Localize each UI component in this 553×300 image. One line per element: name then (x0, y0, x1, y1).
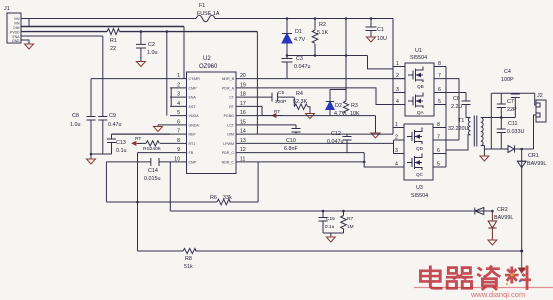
wire J2 pin2 stub (534, 115, 537, 149)
resistor R7 (341, 211, 347, 233)
ground T1 (480, 156, 489, 161)
svg-text:NDR_C: NDR_C (222, 160, 235, 164)
svg-text:0.47u: 0.47u (108, 122, 122, 128)
svg-text:2: 2 (395, 135, 398, 141)
wire PDR_A route (253, 88, 406, 105)
svg-text:QC: QC (416, 172, 424, 177)
svg-text:2: 2 (396, 73, 399, 79)
svg-text:10: 10 (174, 156, 180, 162)
wire NDR_C (253, 161, 365, 163)
wire LPWM (253, 142, 394, 144)
U2 pin stubs right (236, 79, 253, 162)
svg-text:8: 8 (437, 122, 440, 128)
svg-text:R2: R2 (319, 22, 326, 28)
svg-text:RT: RT (274, 109, 280, 115)
wire U2 pin1 to C8 branch (91, 78, 170, 80)
wire T1 primary bottom (446, 135, 471, 150)
capacitor C9 (98, 36, 107, 154)
svg-text:4: 4 (395, 162, 398, 168)
svg-text:0.1u: 0.1u (325, 224, 335, 230)
svg-text:8: 8 (177, 138, 180, 144)
svg-text:6.8nF: 6.8nF (284, 146, 298, 152)
svg-text:QA: QA (417, 110, 425, 115)
arrow tail end (519, 268, 525, 273)
diode CR1 (517, 149, 526, 251)
svg-text:R1: R1 (110, 38, 117, 44)
svg-text:20: 20 (240, 73, 246, 79)
wire R4 to ground (308, 107, 310, 114)
svg-text:ENA: ENA (189, 96, 197, 100)
svg-text:1.0u: 1.0u (147, 50, 158, 56)
svg-text:OZ960: OZ960 (199, 64, 218, 70)
svg-text:17: 17 (240, 101, 246, 107)
watermark char zi (477, 266, 500, 290)
off-page arrow RT right (272, 114, 282, 118)
ground C1 (367, 37, 376, 42)
wire DIM drop x257.4 (256, 32, 258, 135)
svg-text:12: 12 (240, 147, 246, 153)
svg-text:PGND: PGND (224, 114, 235, 118)
svg-text:51k: 51k (184, 264, 193, 270)
svg-text:CT: CT (229, 96, 235, 100)
svg-text:8: 8 (438, 61, 441, 67)
svg-text:C4: C4 (504, 69, 511, 75)
svg-text:LCT: LCT (227, 123, 235, 127)
wire pin17 RT stub (253, 106, 283, 115)
svg-text:C15: C15 (326, 216, 335, 222)
svg-text:VIN: VIN (14, 17, 20, 21)
svg-text:CMP: CMP (189, 86, 198, 90)
U1 pin stubs (393, 67, 446, 105)
svg-text:R7: R7 (347, 216, 353, 222)
svg-text:CT/MR: CT/MR (189, 77, 201, 81)
watermark char dian (420, 266, 442, 289)
svg-text:3: 3 (395, 148, 398, 154)
svg-text:www.dianqi.com: www.dianqi.com (470, 290, 525, 299)
svg-text:15: 15 (240, 119, 246, 125)
svg-text:4.7V: 4.7V (334, 111, 345, 117)
watermark sparkle dots (506, 273, 522, 285)
svg-text:10U: 10U (377, 36, 387, 42)
wire CT / C5 (253, 96, 295, 98)
svg-text:1: 1 (395, 122, 398, 128)
wire C14 left drop (105, 162, 107, 202)
svg-text:18: 18 (240, 92, 246, 98)
svg-text:DIM: DIM (227, 133, 234, 137)
svg-text:13: 13 (240, 138, 246, 144)
capacitor C5 (272, 93, 278, 102)
svg-text:SI5504: SI5504 (410, 55, 427, 61)
wire rail A end drop (392, 19, 394, 135)
svg-text:C10: C10 (286, 138, 296, 144)
IC U3 SI5504 (404, 124, 433, 180)
mosfet QA (408, 93, 423, 109)
svg-text:7: 7 (177, 129, 180, 135)
fuse F1 (196, 15, 215, 22)
svg-text:32.220U: 32.220U (448, 126, 468, 132)
svg-text:CR2: CR2 (497, 207, 508, 213)
U2 pin numbers (174, 73, 246, 162)
svg-text:U2: U2 (203, 56, 211, 62)
ground C2 (136, 62, 145, 67)
mosfet QD (407, 128, 422, 145)
wire R3 vertical from rail A (345, 19, 347, 102)
svg-text:3: 3 (396, 87, 399, 93)
svg-text:C12: C12 (331, 131, 341, 137)
svg-text:VIN: VIN (14, 22, 20, 26)
svg-text:DIM: DIM (13, 26, 19, 30)
wire feedback line y211 (170, 210, 474, 212)
wire C15 R7 bottoms (323, 233, 344, 237)
svg-text:5: 5 (177, 110, 180, 116)
svg-text:SI5504: SI5504 (411, 193, 428, 199)
svg-text:11: 11 (240, 156, 245, 162)
watermark strike line (414, 287, 553, 289)
diode D3 sense (508, 146, 515, 153)
svg-text:RS240K: RS240K (143, 146, 162, 152)
transformer T1 (468, 116, 483, 147)
wire R6 line (106, 201, 258, 203)
diode CR2 (474, 208, 493, 215)
svg-text:PVDD: PVDD (10, 31, 20, 35)
resistor R2 (312, 19, 318, 56)
svg-text:C2: C2 (148, 42, 155, 48)
svg-text:C13: C13 (116, 140, 126, 146)
capacitor C11 (497, 129, 506, 149)
svg-text:5.1K: 5.1K (317, 30, 328, 36)
U2 pin stubs left (170, 79, 187, 162)
svg-text:R8: R8 (185, 256, 192, 262)
svg-text:0.047u: 0.047u (327, 139, 344, 145)
svg-text:BAV99L: BAV99L (527, 161, 546, 167)
wire lamp sense tail (521, 251, 523, 268)
wire U2 pins 2-3-4 tie (170, 88, 172, 107)
wire FB down (138, 153, 171, 251)
watermark char qi (446, 268, 473, 289)
svg-text:C8: C8 (72, 113, 79, 119)
svg-text:4.7V: 4.7V (294, 37, 305, 43)
svg-text:CR1: CR1 (528, 153, 539, 159)
svg-text:2: 2 (177, 82, 180, 88)
svg-text:BAV99L: BAV99L (494, 215, 513, 221)
resistor R4 (294, 104, 307, 110)
svg-text:F1: F1 (199, 3, 205, 9)
wire DIM node line (253, 133, 394, 135)
svg-text:1.0u: 1.0u (70, 122, 81, 128)
svg-text:4: 4 (396, 99, 399, 105)
svg-text:C14: C14 (148, 168, 158, 174)
svg-text:22P: 22P (507, 107, 517, 113)
wire output left drop (490, 93, 492, 149)
svg-text:C6: C6 (453, 96, 460, 102)
wire x393.5 drop QD area (394, 140, 405, 154)
svg-text:C3: C3 (296, 56, 303, 62)
wire bottom rail (138, 250, 522, 252)
capacitor C3 (282, 56, 293, 79)
svg-text:C11: C11 (508, 121, 518, 127)
capacitor C10 (292, 125, 301, 134)
off-page arrow RT left (132, 141, 142, 145)
svg-text:CMP: CMP (189, 160, 198, 164)
svg-text:5: 5 (437, 162, 440, 168)
svg-text:R4: R4 (296, 91, 303, 97)
svg-text:1M: 1M (347, 224, 354, 230)
ground CR2 (488, 240, 497, 245)
wire zener node line (287, 55, 368, 57)
svg-text:T1: T1 (458, 118, 464, 124)
svg-text:1: 1 (177, 73, 180, 79)
wire PDR_C drop to QC gate (364, 153, 404, 167)
svg-text:GNDA: GNDA (189, 123, 200, 127)
wire gnd stem left block (90, 154, 92, 159)
svg-text:PDR_A: PDR_A (222, 86, 235, 90)
wire C6 feed (446, 92, 466, 94)
wire D2 top link (330, 89, 346, 91)
wire rail A VIN top (29, 18, 393, 20)
capacitor C2 (136, 32, 146, 62)
wire rail B (21, 26, 184, 28)
capacitor C8 (87, 79, 96, 154)
svg-text:J1: J1 (4, 6, 10, 12)
svg-text:7: 7 (438, 73, 441, 79)
svg-text:33k: 33k (223, 195, 232, 201)
wire LCT / C10 (253, 124, 297, 126)
resistor R3 (343, 101, 348, 116)
watermark char liao (505, 266, 531, 290)
svg-text:3: 3 (177, 92, 180, 98)
wire rail C (21, 31, 257, 33)
svg-text:R6: R6 (210, 195, 217, 201)
ground left block (87, 159, 96, 164)
svg-text:REF: REF (189, 133, 197, 137)
svg-text:14: 14 (240, 129, 246, 135)
wire J2 pin1 stub (535, 93, 536, 105)
wire rail D (21, 35, 103, 37)
wire VDDA drop x166.8 (166, 32, 168, 116)
U2 pin names (189, 77, 235, 164)
svg-text:VDDA: VDDA (189, 114, 200, 118)
wire PGND (253, 115, 376, 117)
svg-text:4: 4 (177, 101, 180, 107)
svg-text:D1: D1 (295, 29, 302, 35)
svg-text:R3: R3 (351, 103, 358, 109)
ground J1 (25, 44, 34, 49)
svg-text:2.2U: 2.2U (451, 104, 462, 110)
svg-text:RT1: RT1 (189, 142, 196, 146)
capacitor C7 (497, 93, 506, 129)
svg-text:C9: C9 (109, 113, 116, 119)
svg-text:5: 5 (438, 99, 441, 105)
capacitor C6 (462, 93, 471, 118)
svg-text:U3: U3 (416, 185, 423, 191)
svg-text:RT: RT (229, 105, 235, 109)
capacitor C14 (151, 158, 159, 166)
svg-text:100P: 100P (501, 77, 514, 83)
wire R6 right up to NDR_C (257, 162, 259, 202)
svg-text:D2: D2 (335, 103, 342, 109)
wire NDR_B to QB gate (253, 78, 406, 80)
diode CR2b vertical (488, 211, 496, 240)
svg-text:0.033U: 0.033U (507, 129, 524, 135)
svg-text:220P: 220P (275, 99, 286, 105)
J1 pin names (10, 17, 20, 43)
capacitor C12 (343, 134, 352, 153)
wire RT1 (137, 142, 170, 144)
IC U1 SI5504 (405, 63, 434, 116)
svg-text:SST: SST (189, 105, 197, 109)
svg-text:QD: QD (416, 146, 424, 151)
svg-text:FB: FB (189, 151, 194, 155)
wire pin10 drop to feedback line (169, 162, 171, 211)
capacitor C1 (366, 19, 377, 38)
svg-text:C5: C5 (278, 90, 284, 96)
svg-text:0.047u: 0.047u (294, 64, 311, 70)
wire mosfet right bus (445, 67, 447, 168)
wire mosfet second bus (446, 79, 459, 140)
svg-text:QB: QB (417, 84, 424, 89)
svg-text:PDR_C: PDR_C (222, 151, 235, 155)
wire CMP/C14 net (106, 161, 170, 163)
U3 pin stubs (393, 128, 446, 168)
capacitor C4 (511, 93, 520, 117)
zener D1 (282, 19, 292, 56)
wire C5 to R4 step (293, 97, 295, 107)
svg-text:10K: 10K (350, 111, 360, 117)
svg-text:6: 6 (438, 87, 441, 93)
ground R4 (306, 114, 315, 119)
wire node to U1 pin1 (368, 56, 394, 69)
capacitor C13 (107, 134, 116, 154)
svg-text:0.1u: 0.1u (116, 148, 127, 154)
wire J1 gnd stub (21, 40, 29, 44)
svg-text:0.015u: 0.015u (144, 176, 161, 182)
svg-text:22: 22 (110, 46, 116, 52)
svg-text:C1: C1 (377, 27, 384, 33)
svg-text:RT: RT (135, 136, 141, 142)
connector J2 (536, 100, 546, 122)
wire sense line (484, 148, 533, 150)
wire GNDA stub (158, 125, 170, 127)
wire T1 secondary bottom (481, 146, 485, 156)
wire C8 C9 C13 bottoms (91, 153, 112, 155)
wire PGND ground drop (375, 116, 377, 133)
resistor R5 240K (146, 141, 159, 146)
mosfet QC (407, 154, 422, 171)
svg-text:16: 16 (240, 110, 246, 116)
svg-text:9: 9 (177, 147, 180, 153)
svg-text:LPWM: LPWM (223, 142, 234, 146)
resistor R6 (217, 199, 230, 205)
svg-text:6: 6 (177, 119, 180, 125)
svg-text:7: 7 (437, 135, 440, 141)
ground PGND (371, 133, 380, 138)
ground GNDA (154, 127, 163, 132)
IC U2 OZ960 (187, 72, 237, 174)
U1 U3 pin numbers (395, 61, 441, 168)
svg-text:6: 6 (437, 148, 440, 154)
svg-text:U1: U1 (415, 48, 422, 54)
mosfet QB (408, 67, 423, 83)
zener D2 (326, 90, 334, 116)
svg-text:1: 1 (396, 61, 399, 67)
svg-text:J2: J2 (537, 93, 543, 99)
watermark (414, 266, 553, 300)
capacitor C15 (319, 211, 328, 233)
wire J1 pin1-pin2 tie vertical (28, 19, 30, 27)
svg-text:19: 19 (240, 82, 246, 88)
resistor R1 (107, 29, 120, 35)
svg-text:GND: GND (12, 39, 20, 43)
svg-text:FUSE 1A: FUSE 1A (197, 11, 220, 17)
wire PDR_C (253, 152, 365, 154)
wire T1 secondary top (481, 117, 516, 119)
ground C15 R7 (326, 237, 335, 242)
wire rail B drop to U2 pin1 (183, 27, 185, 79)
wire top output line (491, 92, 534, 94)
connector J1 (7, 13, 21, 43)
svg-text:NDR_B: NDR_B (222, 77, 235, 81)
svg-text:C7: C7 (507, 99, 514, 105)
resistor R8 (183, 248, 196, 253)
svg-text:52.3K: 52.3K (293, 99, 307, 105)
wire J1 pin1 VIN (21, 18, 29, 20)
wire REF to C13 (112, 133, 171, 135)
